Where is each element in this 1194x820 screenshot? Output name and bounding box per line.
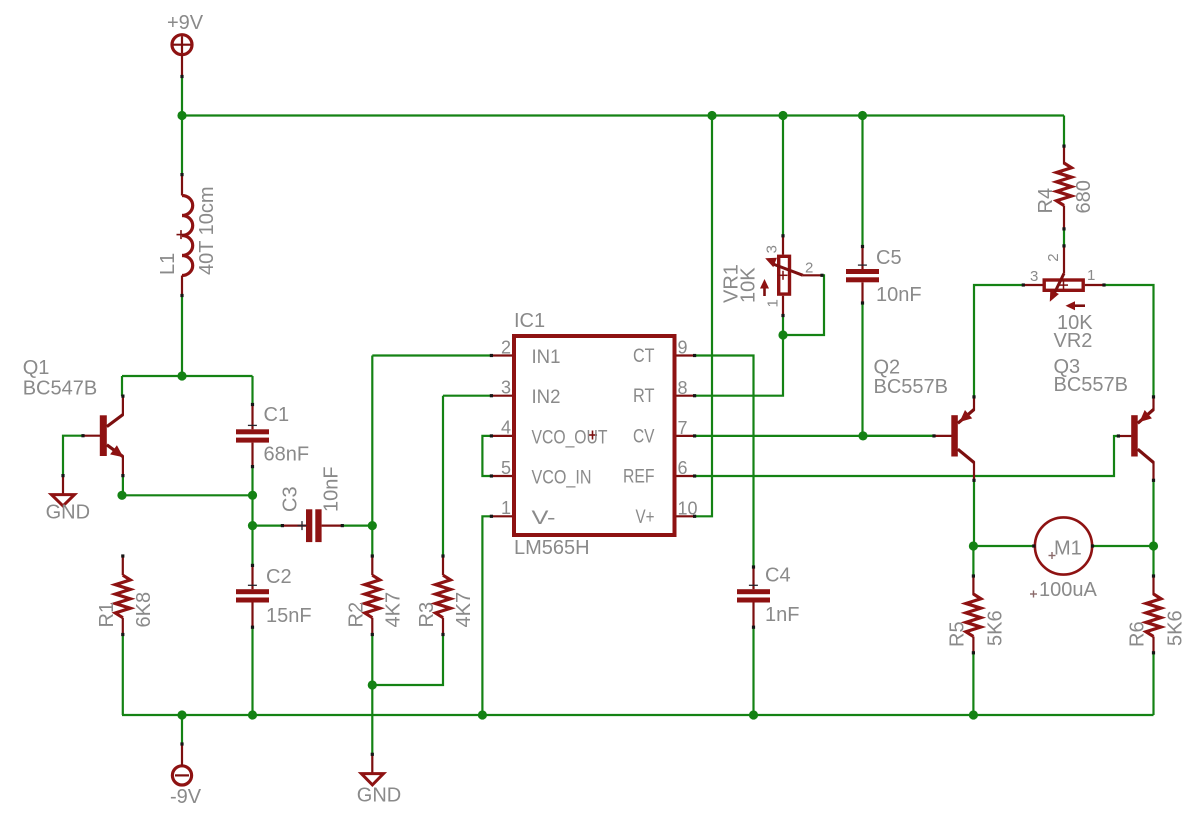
- svg-text:5K6: 5K6: [1165, 610, 1187, 646]
- svg-text:1: 1: [501, 498, 511, 518]
- svg-text:3: 3: [764, 245, 781, 253]
- svg-text:BC557B: BC557B: [874, 376, 949, 398]
- svg-text:R5: R5: [946, 621, 968, 647]
- svg-text:CV: CV: [633, 426, 655, 447]
- svg-text:VR2: VR2: [1054, 330, 1093, 352]
- svg-text:C5: C5: [876, 247, 902, 269]
- svg-text:C4: C4: [765, 565, 791, 587]
- svg-text:8: 8: [678, 378, 688, 398]
- svg-text:6K8: 6K8: [133, 592, 155, 628]
- svg-text:IN2: IN2: [532, 387, 561, 408]
- svg-text:REF: REF: [623, 467, 655, 488]
- svg-text:10nF: 10nF: [876, 284, 922, 306]
- svg-text:2: 2: [1045, 253, 1062, 261]
- svg-text:5K6: 5K6: [984, 610, 1006, 646]
- svg-text:10nF: 10nF: [321, 466, 343, 512]
- svg-text:M1: M1: [1054, 538, 1082, 560]
- svg-text:V+: V+: [636, 507, 655, 528]
- svg-text:10K: 10K: [738, 267, 760, 303]
- svg-text:+9V: +9V: [167, 12, 204, 34]
- svg-text:3: 3: [501, 378, 511, 398]
- svg-text:GND: GND: [46, 502, 90, 524]
- svg-text:680: 680: [1073, 180, 1095, 213]
- svg-text:R2: R2: [345, 602, 367, 628]
- svg-text:L1: L1: [157, 253, 179, 275]
- svg-text:4: 4: [501, 418, 511, 438]
- svg-text:VCO_OUT: VCO_OUT: [532, 427, 608, 448]
- svg-text:IN1: IN1: [532, 347, 561, 368]
- svg-text:R3: R3: [416, 602, 438, 628]
- svg-text:40T 10cm: 40T 10cm: [196, 186, 218, 275]
- svg-text:3: 3: [1030, 268, 1038, 285]
- svg-text:CT: CT: [633, 346, 655, 367]
- svg-text:-9V: -9V: [170, 786, 202, 808]
- svg-text:100uA: 100uA: [1039, 579, 1097, 601]
- svg-text:1: 1: [1087, 267, 1095, 284]
- svg-text:GND: GND: [357, 785, 401, 807]
- svg-text:68nF: 68nF: [264, 444, 310, 466]
- svg-text:9: 9: [678, 338, 688, 358]
- svg-text:BC547B: BC547B: [23, 378, 98, 400]
- svg-text:15nF: 15nF: [266, 605, 312, 627]
- svg-text:6: 6: [678, 458, 688, 478]
- svg-text:5: 5: [501, 458, 511, 478]
- svg-text:V-: V-: [532, 508, 556, 529]
- svg-text:LM565H: LM565H: [514, 537, 590, 559]
- svg-text:1nF: 1nF: [765, 604, 799, 626]
- svg-text:BC557B: BC557B: [1054, 374, 1129, 396]
- svg-text:4K7: 4K7: [453, 592, 475, 628]
- svg-text:C1: C1: [264, 404, 290, 426]
- svg-text:10: 10: [678, 499, 698, 519]
- svg-text:1: 1: [764, 299, 781, 307]
- svg-text:2: 2: [805, 260, 813, 277]
- svg-text:IC1: IC1: [514, 310, 545, 332]
- svg-text:R6: R6: [1127, 621, 1149, 647]
- svg-text:VCO_IN: VCO_IN: [532, 468, 592, 489]
- svg-text:4K7: 4K7: [382, 592, 404, 628]
- svg-text:2: 2: [501, 337, 511, 357]
- svg-text:C2: C2: [266, 566, 292, 588]
- svg-text:7: 7: [678, 418, 688, 438]
- svg-text:R4: R4: [1035, 188, 1057, 214]
- svg-text:RT: RT: [633, 386, 655, 407]
- svg-text:R1: R1: [96, 602, 118, 628]
- svg-text:Q1: Q1: [23, 357, 50, 379]
- svg-text:C3: C3: [280, 486, 302, 512]
